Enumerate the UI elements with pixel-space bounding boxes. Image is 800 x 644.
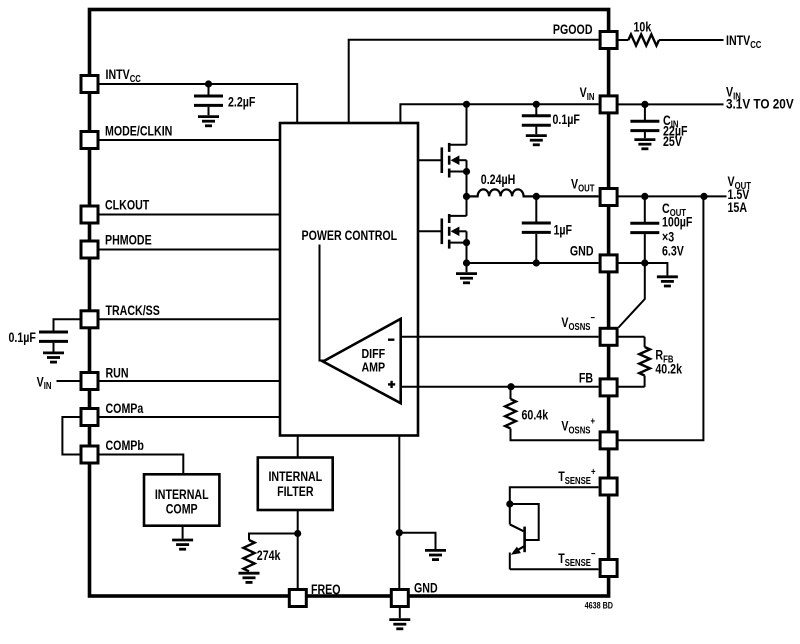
wire GND external	[617, 262, 667, 264]
wire fet ground stub	[466, 263, 468, 272]
pin TSENSE-	[600, 560, 617, 577]
power control block U1	[280, 123, 418, 436]
capacitor 1uF C2	[522, 223, 551, 232]
wire COUT stub top	[644, 196, 646, 222]
wire ss cap to ground	[53, 343, 55, 352]
wire VOUT external	[617, 195, 726, 197]
svg-text:4638 BD: 4638 BD	[585, 601, 613, 611]
svg-text:INTERNAL: INTERNAL	[155, 486, 209, 502]
wire VOSNS- to RFB	[617, 336, 645, 338]
svg-text:CLKOUT: CLKOUT	[105, 197, 150, 213]
svg-text:MODE/CLKIN: MODE/CLKIN	[105, 123, 172, 139]
inductor 0.24uH L1	[467, 189, 599, 196]
node 1uF gnd junction	[533, 259, 540, 266]
wire power-control to diff-amp	[320, 245, 325, 361]
svg-text:100µF: 100µF	[662, 214, 693, 230]
pin MODE/CLKIN	[81, 132, 98, 149]
wire VIN to RUN pin	[57, 380, 81, 382]
wire PGOOD	[349, 40, 599, 123]
ground below 274k	[239, 573, 260, 582]
pin VIN	[600, 96, 617, 113]
ground below soft-start cap	[43, 353, 64, 362]
wire Q2 drain to SW node	[466, 196, 468, 216]
ground internal branch	[425, 550, 446, 559]
wire COMPa	[99, 416, 281, 418]
svg-text:COMP: COMP	[166, 501, 198, 517]
wire 0.1uF stub	[535, 104, 537, 115]
svg-text:RUN: RUN	[106, 365, 129, 381]
pin INTVCC	[81, 76, 98, 93]
IC boundary box	[90, 10, 609, 597]
pin RUN	[81, 373, 98, 390]
pin PGOOD	[600, 32, 617, 49]
svg-text:COMPa: COMPa	[106, 401, 144, 417]
wire VIN external	[617, 103, 723, 105]
wire COMPb to internal comp	[99, 455, 184, 475]
diff-amp plus sign	[388, 381, 395, 388]
svg-text:25V: 25V	[663, 134, 683, 150]
ground below 2.2uF	[198, 117, 219, 126]
wire gnd corner	[666, 262, 668, 275]
wire internal filter to FREQ pin	[297, 510, 299, 589]
node COUT gnd junction	[641, 259, 648, 266]
pin FB	[600, 379, 617, 396]
svg-text:TRACK/SS: TRACK/SS	[106, 303, 160, 319]
wire TRACK/SS to soft-start cap	[54, 319, 81, 330]
wire 60.4k to VOSNS+	[511, 429, 599, 441]
node FB divider junction	[507, 383, 514, 390]
node CIN junction	[641, 101, 648, 108]
svg-text:40.2k: 40.2k	[655, 361, 682, 377]
node Q1 drain junction	[463, 101, 470, 108]
wire Q1 drain to VIN rail	[466, 104, 468, 145]
svg-text:COMPb: COMPb	[106, 438, 145, 454]
svg-text:6.3V: 6.3V	[662, 243, 684, 259]
wire VIN rail internal	[400, 104, 598, 123]
wire FREQ node to 274k	[249, 534, 298, 541]
wire RUN	[99, 380, 281, 382]
ground external output	[657, 277, 678, 286]
svg-text:FB: FB	[579, 370, 593, 386]
wire 1uF stub bottom	[535, 234, 537, 263]
svg-text:15A: 15A	[728, 200, 748, 216]
svg-text:3.1V TO 20V: 3.1V TO 20V	[726, 96, 794, 112]
wire PGOOD pin to 10k	[617, 39, 628, 41]
pin GND right	[600, 255, 617, 272]
svg-text:POWER CONTROL: POWER CONTROL	[301, 227, 397, 243]
node temp diode junction	[506, 500, 513, 507]
capacitor COUT	[630, 223, 659, 232]
wire power control to GND pin	[398, 436, 400, 590]
node Q2 source junction	[463, 259, 470, 266]
pin PHMODE	[81, 241, 98, 258]
resistor 60.4k R2	[505, 387, 516, 429]
svg-text:GND: GND	[414, 580, 438, 596]
wire power control to internal filter	[297, 436, 299, 458]
internal filter block	[258, 458, 333, 511]
wire COUT gnd to VOSNS-	[619, 263, 645, 328]
wire INTVCC pin to bypass node	[99, 84, 298, 123]
svg-text:FILTER: FILTER	[277, 484, 313, 500]
node inductor output junction	[533, 193, 540, 200]
wire FB internal	[401, 386, 599, 388]
wire CIN to ground	[644, 132, 646, 138]
wire CLKOUT	[99, 214, 281, 216]
svg-text:60.4k: 60.4k	[522, 407, 549, 423]
svg-text:10k: 10k	[634, 19, 652, 35]
ground below GND pin	[389, 620, 410, 629]
svg-text:PGOOD: PGOOD	[553, 22, 593, 38]
pin TRACK/SS	[81, 311, 98, 328]
capacitor 0.1uF soft-start	[39, 332, 68, 341]
node VOUT sense junction	[700, 193, 707, 200]
wire MODE/CLKIN	[99, 139, 281, 141]
svg-text:274k: 274k	[257, 548, 281, 564]
op-amp DIFF AMP	[323, 319, 401, 403]
node SW junction	[463, 193, 470, 200]
wire VOSNS+ to VOUT sense	[617, 196, 703, 440]
ground below 0.1uF	[526, 136, 547, 145]
pin TSENSE+	[600, 478, 617, 495]
wire Q2 source to gnd rail	[466, 243, 468, 263]
svg-text:AMP: AMP	[361, 360, 385, 375]
wire 2.2uF cap stub	[208, 84, 210, 96]
pin VOUT	[600, 189, 617, 206]
resistor RFB 40.2k	[639, 337, 650, 387]
wire PHMODE	[99, 249, 281, 251]
svg-text:0.1µF: 0.1µF	[553, 112, 581, 128]
pin VOSNS+	[600, 432, 617, 449]
transistor Q3 temp sense	[510, 524, 525, 569]
ground below CIN	[634, 140, 655, 149]
node internal gnd junction	[396, 529, 403, 536]
wire TSENSE+ internal	[510, 487, 599, 524]
transistor Q1 top MOSFET	[418, 143, 470, 178]
wire 1uF stub top	[535, 196, 537, 222]
wire FB to RFB	[617, 386, 645, 388]
wire CIN stub	[644, 104, 646, 120]
wire base tie	[510, 504, 539, 540]
resistor 10k R1	[628, 34, 659, 45]
capacitor CIN	[630, 121, 659, 130]
svg-text:PHMODE: PHMODE	[105, 232, 152, 248]
pin FREQ	[289, 590, 306, 607]
wire COMPa-COMPb bracket	[62, 417, 80, 455]
pin COMPa	[81, 409, 98, 426]
svg-text:GND: GND	[570, 243, 594, 259]
svg-text:1µF: 1µF	[554, 222, 573, 238]
svg-text:2.2µF: 2.2µF	[228, 94, 256, 110]
wire GND pin to ground symbol	[399, 607, 401, 619]
wire Q1 source to SW node	[466, 172, 468, 197]
pin CLKOUT	[81, 206, 98, 223]
capacitor 0.1uF VIN bypass	[522, 116, 551, 125]
node COUT junction	[641, 193, 648, 200]
wire 0.1uF to ground	[535, 127, 537, 135]
ground below power stage	[456, 274, 477, 283]
node FREQ junction	[294, 530, 301, 537]
node VIN bypass junction	[533, 101, 540, 108]
svg-text:0.1µF: 0.1µF	[9, 330, 37, 346]
diff-amp minus sign	[388, 339, 394, 341]
svg-text:FREQ: FREQ	[311, 582, 341, 598]
resistor 274k R3	[243, 540, 254, 571]
wire 10k to INTVCC	[659, 39, 724, 41]
wire TSENSE- internal	[510, 568, 599, 570]
ground below internal comp	[172, 540, 193, 549]
internal comp block	[144, 474, 219, 525]
wire VOSNS- internal	[401, 336, 599, 338]
node INTVCC bypass junction	[205, 80, 212, 87]
pin GND bottom	[391, 590, 408, 607]
wire COUT stub bottom	[644, 234, 646, 263]
wire gnd branch	[399, 533, 435, 549]
capacitor 2.2uF C1	[194, 96, 223, 105]
wire gnd rail internal	[467, 262, 599, 264]
wire TRACK/SS	[99, 318, 281, 320]
pin COMPb	[81, 446, 98, 463]
svg-text:0.24µH: 0.24µH	[481, 171, 516, 187]
pin VOSNS-	[600, 328, 617, 345]
svg-text:INTERNAL: INTERNAL	[268, 469, 322, 485]
transistor Q2 bottom MOSFET	[418, 214, 470, 249]
wire 2.2uF to ground	[208, 107, 210, 115]
wire internal comp to ground	[182, 526, 184, 539]
